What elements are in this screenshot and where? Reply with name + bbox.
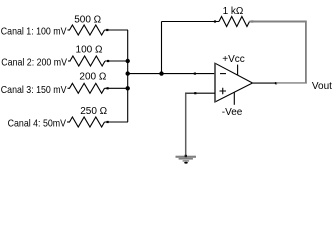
junction dot canal 2 / bus — [126, 59, 130, 63]
wire feedback top left horizontal — [162, 21, 220, 23]
resistor R1 zigzag — [70, 25, 105, 35]
wire right vertical to output (gray) — [305, 21, 307, 84]
wire op-amp output pin — [253, 82, 277, 84]
svg-text:Vout: Vout — [312, 81, 332, 92]
pin end tick op-amp minus pin — [194, 73, 196, 75]
resistor R2 zigzag — [70, 56, 105, 66]
resistor Rf zigzag — [219, 17, 250, 27]
wire ground vertical (gray) — [185, 93, 187, 156]
wire output to right corner (gray) — [276, 82, 307, 84]
wire canal 1 lead — [68, 29, 71, 31]
wire op-amp plus input — [185, 92, 215, 94]
wire canal 2 lead — [68, 60, 71, 62]
svg-text:100 Ω: 100 Ω — [76, 45, 103, 56]
junction dot input wire / bus — [126, 71, 130, 75]
op-amp Vcc pin — [237, 65, 239, 76]
wire feedback left vertical — [161, 22, 163, 74]
svg-text:Canal 4: 50mV: Canal 4: 50mV — [8, 117, 67, 129]
wire canal 4 lead — [67, 121, 70, 123]
pin end tick R1 — [106, 29, 108, 31]
op-amp U1 triangle — [215, 63, 253, 102]
ground symbol — [176, 155, 197, 164]
wire feedback top right horizontal (gray) — [250, 21, 306, 23]
pin end tick Rf right — [251, 20, 253, 22]
wire R4 to bus — [105, 121, 129, 123]
pin end tick R2 — [107, 60, 109, 62]
pin end tick R3 — [107, 87, 109, 89]
wire R3 to bus — [105, 87, 129, 89]
svg-text:Canal 1: 100 mV: Canal 1: 100 mV — [1, 25, 67, 37]
svg-text:+Vcc: +Vcc — [222, 54, 245, 65]
resistor R3 zigzag — [70, 83, 105, 93]
svg-text:1 kΩ: 1 kΩ — [223, 6, 244, 17]
op-amp plus symbol — [220, 88, 227, 95]
junction dot canal 3 / bus — [126, 86, 130, 90]
op-amp Vee pin — [233, 92, 235, 105]
resistor R4 zigzag — [70, 117, 105, 127]
svg-text:Canal 2: 200 mV: Canal 2: 200 mV — [1, 56, 67, 68]
wire R2 to bus — [105, 60, 128, 62]
wire summing bus vertical — [127, 30, 129, 122]
svg-text:250 Ω: 250 Ω — [80, 106, 107, 117]
wire bus to op-amp inverting input — [128, 73, 215, 75]
svg-text:Canal 3: 150 mV: Canal 3: 150 mV — [1, 83, 67, 95]
junction dot feedback / input node — [159, 71, 163, 75]
svg-text:200 Ω: 200 Ω — [79, 72, 106, 83]
svg-text:500 Ω: 500 Ω — [74, 15, 101, 26]
wire canal 3 lead — [68, 87, 71, 89]
pin end tick Rf left — [214, 20, 216, 22]
op-amp minus symbol — [220, 73, 226, 75]
svg-text:-Vee: -Vee — [222, 107, 243, 118]
pin end tick output — [275, 82, 277, 84]
op-amp U1 left edge emphasis — [214, 63, 216, 102]
pin end tick R4 — [107, 121, 109, 123]
pin end tick plus pin — [194, 92, 196, 94]
wire R1 to bus — [105, 29, 129, 31]
